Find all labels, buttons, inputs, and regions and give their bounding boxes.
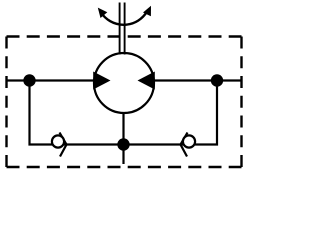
rotation arrowhead: left (98, 8, 108, 18)
junction node: right (211, 74, 223, 86)
wire: center node drain stub (122, 145, 124, 165)
check valve CV2 seat (right valve) (181, 133, 188, 157)
junction node: left (23, 74, 35, 86)
check valve CV1 ball (52, 135, 64, 147)
wire: right valve to center node (124, 143, 184, 145)
wire: left branch down (30, 81, 53, 145)
rotation arrow arc (bidirectional) (101, 12, 147, 25)
check valve CV1 seat (left valve) (60, 133, 67, 157)
flow direction triangle: left (pointing inward) (93, 72, 110, 90)
wire: left port line from enclosure to pump (7, 79, 95, 81)
enclosure: dashed component boundary (7, 37, 242, 168)
wire: right port line from pump to enclosure (154, 79, 242, 81)
wire: left valve to center node (64, 143, 124, 145)
flow direction triangle: right (pointing inward) (138, 72, 155, 90)
drive shaft (double line) (120, 3, 125, 55)
wire: pump bottom to center node (122, 112, 124, 145)
check valve CV2 ball (183, 135, 195, 147)
rotation arrowhead: right (143, 6, 151, 16)
wire: right branch down (195, 81, 217, 145)
hydraulic pump/motor body circle (94, 53, 154, 113)
junction node: center bottom (117, 138, 129, 150)
